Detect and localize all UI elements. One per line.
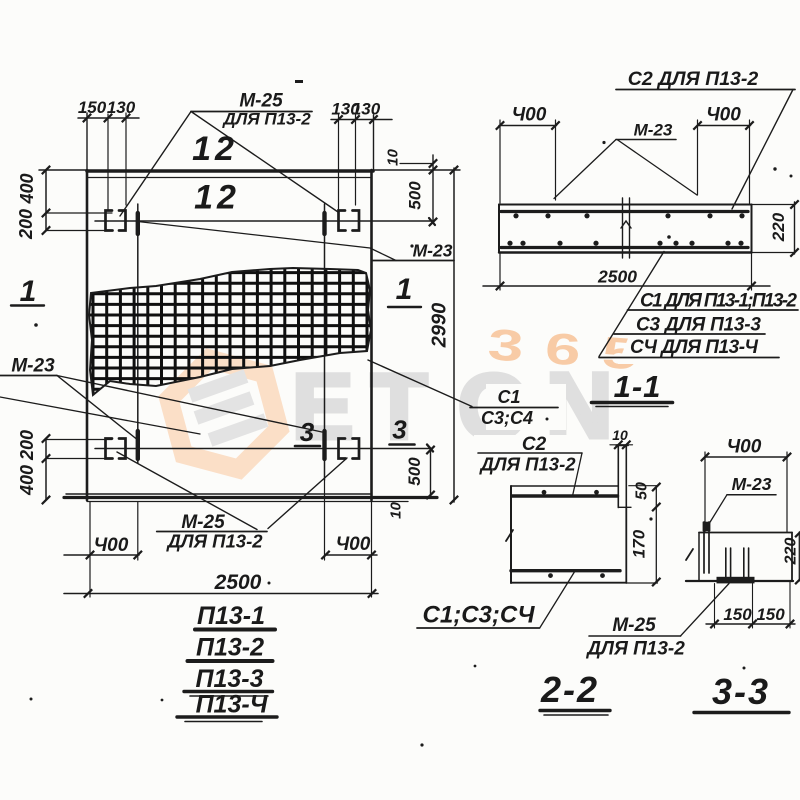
svg-text:400: 400 [17, 173, 37, 204]
svg-text:С3 ДЛЯ П13-3: С3 ДЛЯ П13-3 [636, 315, 761, 336]
svg-text:П13-3: П13-3 [195, 665, 263, 693]
svg-text:2-2: 2-2 [540, 669, 599, 710]
svg-text:П13-Ч: П13-Ч [196, 691, 269, 719]
svg-text:С2 ДЛЯ П13-2: С2 ДЛЯ П13-2 [628, 68, 759, 90]
svg-text:200: 200 [17, 430, 37, 461]
svg-text:С2: С2 [522, 434, 547, 455]
svg-text:П13-1: П13-1 [197, 602, 265, 630]
svg-text:ДЛЯ П13-2: ДЛЯ П13-2 [478, 454, 576, 475]
svg-text:3: 3 [392, 415, 407, 445]
svg-text:220: 220 [783, 538, 800, 566]
svg-text:500: 500 [405, 457, 424, 486]
svg-text:3-3: 3-3 [712, 671, 770, 712]
svg-text:130: 130 [107, 98, 136, 117]
svg-text:2500: 2500 [597, 267, 637, 287]
svg-text:М-23: М-23 [732, 474, 772, 494]
svg-text:М-23: М-23 [413, 241, 453, 261]
svg-text:10: 10 [385, 149, 402, 166]
svg-text:М-23: М-23 [11, 356, 55, 377]
svg-text:СЧ ДЛЯ П13-Ч: СЧ ДЛЯ П13-Ч [630, 337, 759, 358]
svg-text:400: 400 [17, 465, 37, 496]
svg-text:1: 1 [20, 275, 37, 308]
svg-text:200: 200 [16, 209, 36, 240]
svg-text:С1 ДЛЯ П13-1;П13-2: С1 ДЛЯ П13-1;П13-2 [640, 291, 797, 312]
svg-text:1-1: 1-1 [614, 369, 662, 404]
svg-text:ДЛЯ П13-2: ДЛЯ П13-2 [585, 639, 685, 660]
svg-text:С3;С4: С3;С4 [481, 408, 533, 428]
svg-text:М-23: М-23 [634, 121, 673, 140]
svg-text:150: 150 [723, 605, 752, 624]
svg-text:220: 220 [769, 212, 788, 242]
svg-text:10: 10 [612, 427, 628, 443]
svg-text:12: 12 [192, 130, 238, 168]
svg-text:Ч00: Ч00 [512, 105, 547, 126]
svg-text:500: 500 [406, 181, 425, 210]
svg-text:Ч00: Ч00 [706, 105, 741, 126]
svg-text:130: 130 [352, 100, 381, 119]
svg-text:150: 150 [78, 98, 107, 117]
svg-text:Ч00: Ч00 [94, 535, 129, 556]
svg-text:С1: С1 [497, 387, 520, 407]
svg-text:2500: 2500 [214, 571, 262, 594]
svg-text:2990: 2990 [429, 303, 451, 349]
svg-text:10: 10 [388, 502, 405, 519]
svg-text:Ч00: Ч00 [336, 534, 371, 555]
svg-text:170: 170 [630, 529, 649, 558]
svg-text:3: 3 [300, 417, 315, 447]
svg-text:П13-2: П13-2 [196, 634, 264, 662]
svg-text:ДЛЯ П13-2: ДЛЯ П13-2 [221, 110, 311, 129]
svg-text:М-25: М-25 [612, 615, 656, 636]
svg-text:150: 150 [756, 605, 785, 624]
svg-text:М-25: М-25 [239, 91, 283, 112]
svg-text:12: 12 [194, 179, 240, 217]
svg-text:1: 1 [396, 273, 413, 306]
svg-text:ДЛЯ П13-2: ДЛЯ П13-2 [165, 531, 263, 552]
svg-text:50: 50 [634, 482, 651, 500]
svg-text:С1;С3;СЧ: С1;С3;СЧ [423, 602, 536, 629]
svg-text:Ч00: Ч00 [727, 437, 762, 458]
